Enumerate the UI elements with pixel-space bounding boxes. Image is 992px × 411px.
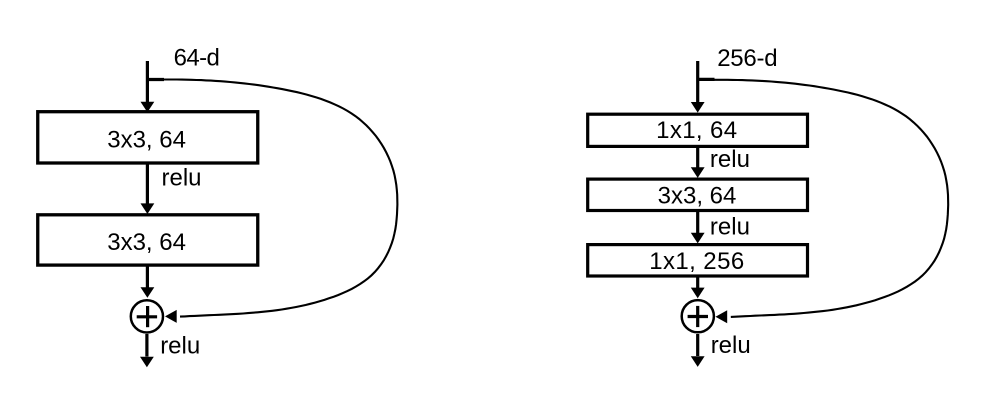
svg-text:relu: relu bbox=[711, 332, 751, 359]
arrowhead: into left adder bbox=[141, 287, 155, 298]
wire: right input vertical line bbox=[696, 61, 699, 103]
wire: left output line bbox=[145, 334, 148, 357]
arrowhead: right skip connection into adder bbox=[716, 310, 728, 323]
svg-text:1x1, 256: 1x1, 256 bbox=[649, 248, 744, 275]
arrowhead: into conv box L2 bbox=[141, 203, 155, 214]
conv box L2: 3x3, 64 bbox=[38, 215, 258, 265]
adder circle (right) bbox=[682, 300, 714, 332]
svg-text:3x3, 64: 3x3, 64 bbox=[107, 126, 186, 153]
svg-text:relu: relu bbox=[162, 164, 202, 191]
wire: right arrow conv1 to conv2 bbox=[696, 147, 699, 169]
arrowhead: left input into conv box 1 bbox=[141, 102, 155, 113]
svg-text:3x3, 64: 3x3, 64 bbox=[658, 183, 737, 210]
conv box L1: 3x3, 64 bbox=[38, 112, 258, 163]
arrowhead: into conv box R2 bbox=[691, 167, 705, 178]
adder circle (left) bbox=[131, 300, 163, 332]
svg-text:relu: relu bbox=[710, 214, 750, 241]
wire: right skip-connection curve bbox=[713, 80, 949, 317]
conv box R3: 1x1, 256 bbox=[588, 245, 808, 276]
wire: left branch tick bbox=[147, 78, 164, 81]
plus sign (left adder) horizontal bbox=[137, 315, 157, 318]
wire: right output line bbox=[696, 334, 699, 356]
arrowhead: into conv box R3 bbox=[691, 233, 705, 244]
arrowhead: left skip connection into adder bbox=[165, 310, 177, 323]
conv box R1: 1x1, 64 bbox=[588, 114, 808, 146]
wire: left arrow conv1 to conv2 bbox=[146, 164, 149, 205]
arrowhead: right input into conv box 1 bbox=[691, 102, 705, 113]
svg-text:1x1, 64: 1x1, 64 bbox=[656, 117, 737, 144]
svg-text:64-d: 64-d bbox=[174, 44, 220, 71]
wire: right branch tick bbox=[698, 78, 715, 81]
plus sign (right adder) vertical bbox=[696, 306, 699, 327]
wire: right arrow conv2 to conv3 bbox=[696, 211, 699, 234]
plus sign (right adder) horizontal bbox=[688, 315, 708, 318]
arrowhead: into right adder bbox=[691, 288, 705, 299]
svg-text:256-d: 256-d bbox=[717, 45, 777, 72]
svg-text:3x3, 64: 3x3, 64 bbox=[107, 229, 186, 256]
wire: left arrow conv2 to adder bbox=[146, 265, 149, 288]
wire: left skip-connection curve bbox=[162, 80, 398, 317]
plus sign (left adder) vertical bbox=[146, 306, 149, 327]
wire: right arrow conv3 to adder bbox=[696, 276, 699, 288]
arrowhead: left output bbox=[140, 357, 154, 368]
conv box R2: 3x3, 64 bbox=[588, 179, 808, 210]
svg-text:relu: relu bbox=[160, 333, 200, 360]
svg-text:relu: relu bbox=[710, 146, 750, 173]
arrowhead: right output bbox=[691, 356, 705, 367]
wire: left input vertical line bbox=[146, 61, 149, 103]
